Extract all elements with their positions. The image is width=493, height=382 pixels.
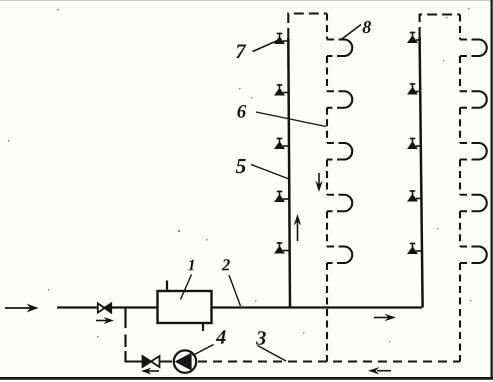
label 5: [236, 159, 246, 173]
wire: dashed top stub of left riser: [288, 14, 327, 39]
label 1: [188, 260, 194, 270]
arrow on supply main right part: [374, 314, 396, 321]
wire: left solid riser (5): [288, 38, 290, 308]
label 2: [222, 259, 230, 270]
down arrow beside riser 6: [315, 173, 322, 192]
riser 6b right dashed return riser with loops: [460, 15, 487, 362]
label 4: [216, 330, 226, 343]
wire: dashed top stub of right riser: [420, 15, 460, 38]
arrow under valve V1: [96, 317, 114, 324]
riser 6 left dashed return riser with loops: [327, 14, 352, 362]
radiator valves on riser 5 (label 7 points at top one): [275, 33, 289, 254]
arrow under valve V2 (left): [141, 368, 159, 375]
label 8: [363, 21, 371, 33]
valve V2 on return: [143, 356, 160, 367]
wire: bypass drop at x=125: [124, 308, 126, 329]
boiler 1: [158, 291, 212, 323]
bottom frame line: [0, 377, 493, 380]
supply main pipe: [57, 306, 422, 308]
pump 4: [174, 350, 196, 372]
wire: right solid riser: [420, 37, 423, 308]
top faint frame line: [0, 0, 493, 2]
right frame line: [491, 0, 493, 379]
radiator valves on right riser: [408, 32, 422, 254]
label 6: [237, 105, 246, 118]
return main (3) dashed bottom line: [126, 360, 173, 362]
label 7: [236, 45, 246, 58]
arrow on return main (left): [368, 367, 391, 374]
inlet arrow: [5, 304, 39, 313]
label 3: [256, 331, 266, 345]
up arrow beside riser 5: [294, 214, 301, 241]
valve V1 on supply: [98, 303, 111, 312]
